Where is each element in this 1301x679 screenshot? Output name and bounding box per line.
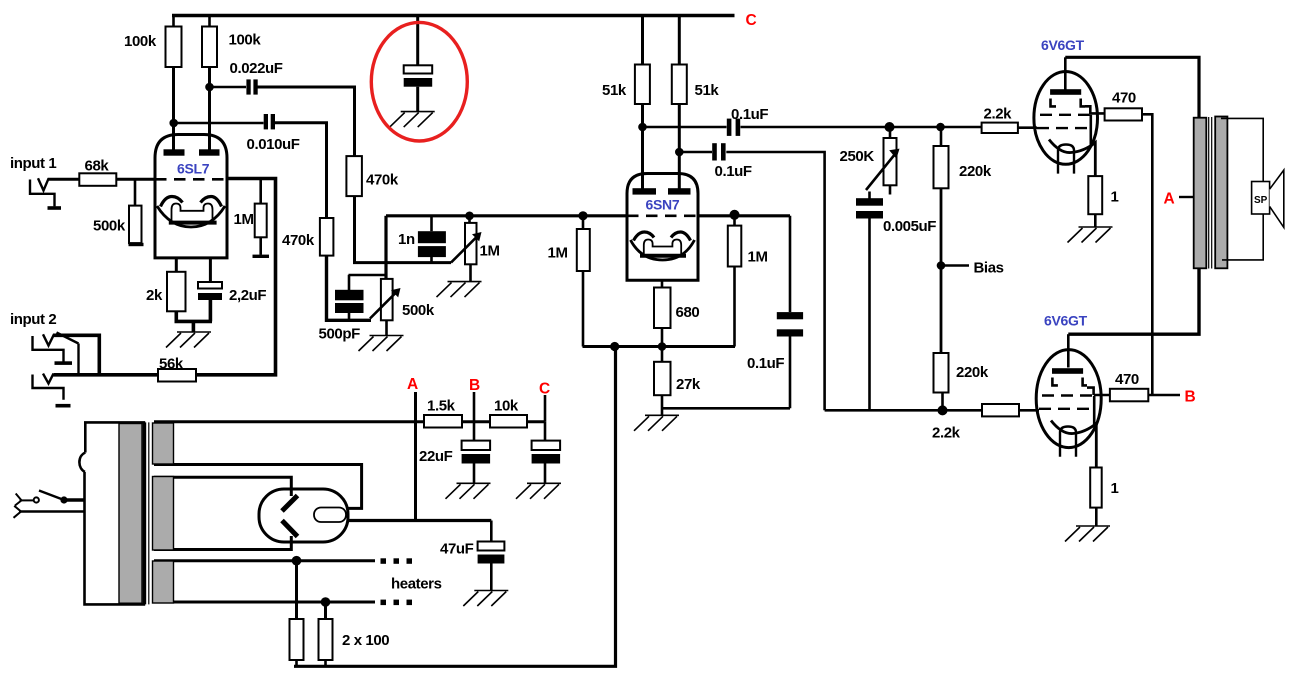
svg-text:220k: 220k xyxy=(956,364,989,381)
svg-text:6V6GT: 6V6GT xyxy=(1041,37,1085,53)
svg-text:22uF: 22uF xyxy=(419,448,453,465)
svg-text:68k: 68k xyxy=(85,158,110,175)
svg-text:1M: 1M xyxy=(480,243,500,260)
svg-text:0.1uF: 0.1uF xyxy=(731,106,768,123)
svg-text:500pF: 500pF xyxy=(319,326,361,343)
svg-text:51k: 51k xyxy=(695,82,720,99)
svg-text:0.1uF: 0.1uF xyxy=(715,163,752,180)
svg-text:56k: 56k xyxy=(159,356,184,373)
svg-text:2,2uF: 2,2uF xyxy=(229,287,266,304)
svg-text:2.2k: 2.2k xyxy=(984,106,1013,123)
svg-text:6SN7: 6SN7 xyxy=(646,197,680,213)
svg-text:1M: 1M xyxy=(234,211,254,228)
svg-text:0.005uF: 0.005uF xyxy=(883,218,936,235)
svg-text:1: 1 xyxy=(1111,480,1119,497)
svg-text:2 x 100: 2 x 100 xyxy=(342,632,389,649)
svg-text:B: B xyxy=(469,377,480,394)
svg-text:0.022uF: 0.022uF xyxy=(230,60,283,77)
svg-text:A: A xyxy=(1164,191,1175,208)
svg-text:input 1: input 1 xyxy=(10,155,56,172)
svg-text:input 2: input 2 xyxy=(10,311,56,328)
svg-text:100k: 100k xyxy=(124,33,157,50)
svg-text:C: C xyxy=(539,381,550,398)
svg-text:2.2k: 2.2k xyxy=(932,425,961,442)
svg-text:1: 1 xyxy=(1111,189,1119,206)
svg-text:27k: 27k xyxy=(676,376,701,393)
svg-text:470: 470 xyxy=(1115,371,1139,388)
svg-text:1.5k: 1.5k xyxy=(427,398,456,415)
svg-text:220k: 220k xyxy=(959,163,992,180)
svg-text:47uF: 47uF xyxy=(440,541,474,558)
svg-text:51k: 51k xyxy=(602,82,627,99)
svg-text:C: C xyxy=(746,12,757,29)
svg-text:SP: SP xyxy=(1254,195,1268,206)
svg-text:1M: 1M xyxy=(748,249,768,266)
svg-text:470k: 470k xyxy=(282,232,315,249)
svg-text:6V6GT: 6V6GT xyxy=(1044,313,1088,329)
svg-text:6SL7: 6SL7 xyxy=(177,161,210,177)
svg-text:680: 680 xyxy=(676,304,700,321)
svg-text:Bias: Bias xyxy=(974,260,1004,277)
svg-text:0.010uF: 0.010uF xyxy=(247,136,300,153)
svg-text:470k: 470k xyxy=(366,172,399,189)
svg-text:500k: 500k xyxy=(402,302,435,319)
svg-text:2k: 2k xyxy=(146,287,163,304)
svg-text:B: B xyxy=(1185,389,1196,406)
svg-text:1M: 1M xyxy=(548,245,568,262)
svg-text:250K: 250K xyxy=(840,148,875,165)
svg-text:470: 470 xyxy=(1112,90,1136,107)
svg-text:0.1uF: 0.1uF xyxy=(747,355,784,372)
svg-text:500k: 500k xyxy=(93,218,126,235)
svg-text:10k: 10k xyxy=(494,398,519,415)
svg-text:100k: 100k xyxy=(229,32,262,49)
svg-text:A: A xyxy=(407,376,418,393)
svg-text:heaters: heaters xyxy=(391,576,442,593)
svg-text:1n: 1n xyxy=(398,231,415,248)
